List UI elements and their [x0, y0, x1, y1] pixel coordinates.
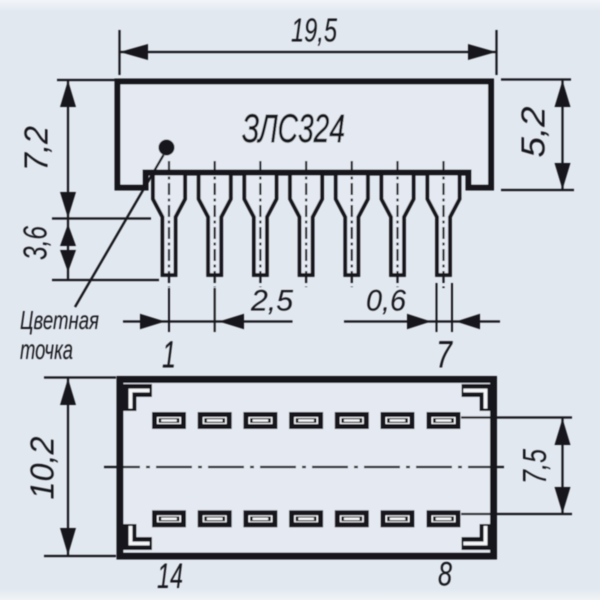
pin 6 centerline: [396, 161, 398, 287]
svg-text:19,5: 19,5: [291, 12, 337, 49]
pin 7: [428, 172, 460, 275]
top white strip: [0, 0, 600, 12]
pad pin8: [427, 510, 461, 527]
pad pin12: [243, 510, 277, 527]
bottom white strip: [0, 589, 600, 600]
pin 4: [290, 172, 322, 275]
svg-text:8: 8: [438, 556, 452, 594]
pad pin1: [152, 412, 186, 429]
svg-text:7,2: 7,2: [18, 126, 55, 171]
pads: [152, 412, 461, 527]
dim 10,2: [44, 376, 116, 378]
corner bracket bottom-right: [462, 524, 487, 544]
pad pin6: [381, 412, 415, 429]
pad pin10: [335, 510, 369, 527]
marking dot: [159, 140, 175, 156]
corner bracket top-left: [130, 391, 152, 412]
pin 7 centerline: [442, 161, 444, 288]
pad pin4: [289, 412, 323, 429]
pin 6: [382, 172, 414, 275]
svg-text:точка: точка: [20, 334, 73, 365]
svg-text:7,5: 7,5: [516, 449, 553, 484]
svg-text:14: 14: [157, 557, 183, 596]
pad pin13: [198, 510, 232, 527]
center line: [104, 466, 508, 468]
pin 5 centerline: [351, 161, 353, 287]
pin 2: [199, 172, 231, 275]
svg-text:7: 7: [436, 335, 453, 377]
corner bracket bottom-left: [130, 524, 152, 544]
pad pin14: [152, 510, 186, 527]
pin 3: [244, 172, 276, 275]
dim 5,2: [501, 78, 571, 80]
svg-text:5,2: 5,2: [515, 107, 552, 158]
corner bracket top-right: [462, 391, 487, 412]
dim 2,5: [168, 288, 170, 332]
dim 3,6: [52, 217, 151, 219]
pad pin5: [335, 412, 369, 429]
dim 7,5: [461, 416, 572, 418]
package body outline: [118, 82, 492, 188]
dim 0,6: [436, 283, 438, 332]
svg-text:Цветная: Цветная: [20, 305, 99, 335]
dim 7,2: [57, 79, 115, 81]
pin 2 centerline: [214, 161, 216, 287]
svg-text:1: 1: [162, 335, 176, 377]
pin 3 centerline: [259, 161, 261, 287]
pad pin7: [427, 412, 461, 429]
pin 4 centerline: [305, 161, 307, 287]
svg-text:0,6: 0,6: [366, 285, 406, 318]
dim 19,5 line: [120, 51, 497, 53]
svg-text:3,6: 3,6: [17, 226, 54, 260]
pin 1 centerline: [168, 161, 170, 287]
pad pin11: [289, 510, 323, 527]
svg-text:ЗЛС324: ЗЛС324: [242, 107, 345, 151]
pad pin3: [243, 412, 277, 429]
package outline rect: [120, 380, 494, 557]
pin 5: [336, 172, 368, 275]
pin 1: [153, 172, 185, 275]
leader line to dot: [75, 155, 164, 307]
pad pin2: [198, 412, 232, 429]
svg-text:10,2: 10,2: [24, 437, 61, 500]
pad pin9: [381, 510, 415, 527]
dim 19,5 extension lines: [118, 30, 120, 75]
svg-text:2,5: 2,5: [250, 285, 293, 318]
